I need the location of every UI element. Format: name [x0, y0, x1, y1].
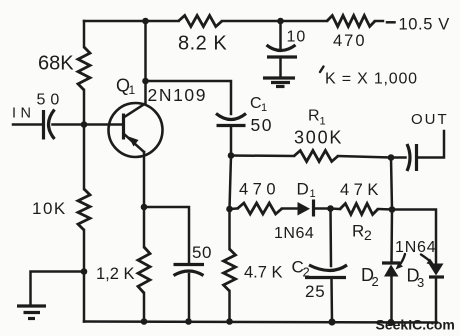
wire top rail left segment [84, 20, 179, 23]
wire mid node to R1 [231, 154, 294, 157]
transistor Q1 2N109 [109, 103, 163, 157]
svg-text:470: 470 [333, 32, 367, 50]
wire collector to rail [144, 21, 147, 81]
svg-text:1N64: 1N64 [274, 225, 314, 242]
svg-text:1: 1 [310, 188, 316, 200]
arrow to D2 [399, 254, 405, 266]
wire R1 to out node [338, 156, 391, 158]
svg-text:IN: IN [12, 106, 36, 122]
node bypass bottom [185, 318, 192, 325]
svg-text:SeekIC.com: SeekIC.com [376, 317, 455, 333]
wire ground stub [31, 272, 85, 306]
node D1-47K junction [327, 205, 334, 212]
emitter arrow (PNP) [129, 137, 139, 147]
node 4.7K top junction [226, 206, 233, 213]
capacitor 50 (input coupling) [42, 110, 45, 140]
node mid junction [228, 152, 235, 159]
node decoupling junction [277, 18, 284, 25]
svg-text:10.5 V: 10.5 V [399, 16, 450, 34]
svg-text:R: R [352, 222, 364, 241]
resistor R1 300K [294, 151, 338, 162]
svg-text:47K: 47K [340, 181, 383, 199]
node out junction [388, 154, 395, 161]
svg-text:2: 2 [364, 227, 372, 243]
svg-text:OUT: OUT [411, 111, 449, 128]
svg-text:8.2 K: 8.2 K [178, 33, 227, 55]
supply label -10.5 V [387, 21, 395, 24]
wire emitter down [143, 152, 146, 207]
wire to base node [53, 123, 85, 126]
svg-text:D: D [297, 180, 309, 199]
ground [17, 304, 46, 307]
arrow to D3 [421, 255, 431, 263]
svg-text:10: 10 [287, 29, 307, 46]
svg-text:R: R [308, 108, 320, 125]
resistor 8.2K [179, 16, 223, 27]
wire left leg to bottom rail [83, 272, 86, 322]
wire R2 node to D3 branch [392, 210, 436, 264]
diode D1 1N64 [298, 202, 311, 216]
wire collector to C1 [146, 81, 232, 114]
wire top rail middle segment [222, 20, 327, 23]
wire input [13, 123, 42, 126]
node emitter junction [141, 204, 148, 211]
resistor 4.7K [228, 209, 231, 249]
wire OUT terminal [417, 131, 444, 158]
node base junction [81, 121, 88, 128]
svg-text:2N109: 2N109 [148, 85, 208, 105]
svg-text:2: 2 [372, 274, 379, 289]
note K = X 1,000 [320, 67, 324, 73]
capacitor 10 (decoupling) [279, 21, 282, 49]
svg-text:50: 50 [192, 243, 212, 262]
wire 470 to D1 [282, 207, 298, 210]
svg-text:4.7 K: 4.7 K [244, 264, 283, 282]
emitter lead [124, 134, 145, 153]
node ground junction [81, 268, 88, 275]
capacitor output coupling [391, 156, 406, 159]
capacitor 50 (emitter bypass) [144, 207, 189, 263]
diode D2 1N64 [382, 261, 400, 264]
svg-text:1,2 K: 1,2 K [96, 265, 135, 283]
resistor 10K [83, 125, 86, 190]
capacitor C2 25 [329, 209, 332, 267]
svg-text:K = X 1,000: K = X 1,000 [325, 71, 418, 88]
collector lead [124, 104, 145, 118]
wire bottom rail [84, 322, 437, 323]
resistor R2 47K [331, 207, 341, 210]
resistor 470 (top, to -10.5V) [327, 16, 375, 27]
wire D1 to node [314, 207, 331, 210]
svg-text:68K: 68K [38, 53, 74, 75]
ground (decoupling cap) [279, 58, 282, 77]
svg-text:25: 25 [305, 282, 326, 301]
diode D3 1N64 [429, 264, 444, 276]
node 1.2K bottom [141, 318, 148, 325]
capacitor C1 50 [216, 114, 246, 120]
svg-text:1: 1 [129, 83, 136, 97]
svg-text:3: 3 [417, 275, 424, 290]
node R2 right junction [389, 206, 396, 213]
svg-text:50: 50 [251, 115, 273, 135]
svg-text:2: 2 [303, 265, 310, 280]
svg-text:10K: 10K [32, 199, 67, 218]
resistor 68K [83, 21, 86, 47]
node C2 bottom [328, 318, 335, 325]
svg-text:50: 50 [37, 92, 65, 109]
wire R2 node down to D2 [390, 210, 393, 264]
svg-text:1: 1 [261, 102, 267, 114]
node 4.7K bottom [226, 318, 233, 325]
node D2 bottom [387, 319, 394, 326]
wire C1 to mid node [230, 127, 233, 156]
wire rail to supply [375, 20, 383, 23]
node collector-rail junction [142, 18, 149, 25]
resistor 1.2K [143, 207, 146, 247]
svg-text:470: 470 [239, 181, 280, 199]
wire base [84, 123, 122, 126]
svg-text:1N64: 1N64 [395, 239, 436, 256]
node collector junction [142, 78, 149, 85]
svg-text:C: C [250, 95, 262, 112]
wire out node down to R2 node [391, 158, 392, 210]
svg-text:300K: 300K [294, 128, 343, 148]
svg-text:1: 1 [320, 116, 326, 128]
resistor 470 (lower) [238, 203, 283, 214]
